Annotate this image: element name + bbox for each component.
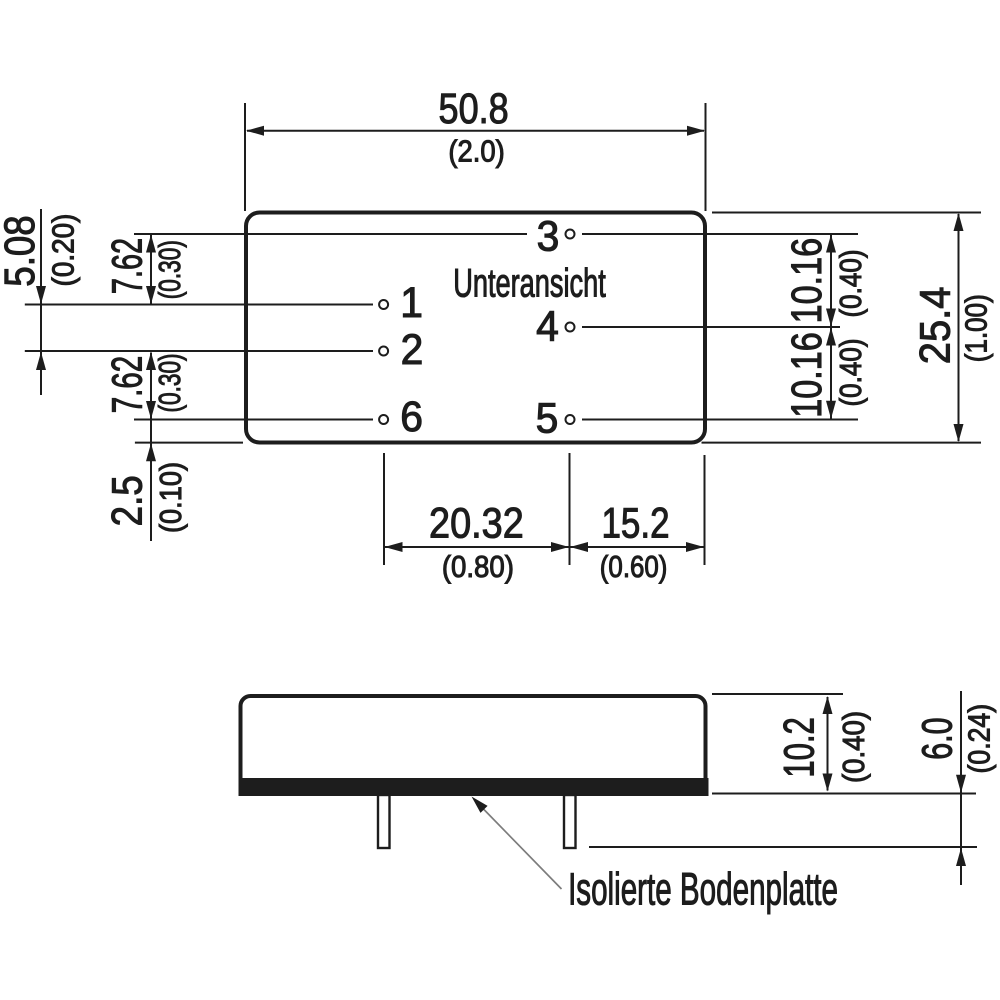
arrowhead 25.4 top xyxy=(954,213,964,231)
svg-text:(0.40): (0.40) xyxy=(837,711,872,783)
arrowhead 5.08 down xyxy=(36,286,46,304)
svg-text:Unteransicht: Unteransicht xyxy=(453,261,606,305)
svg-text:(0.60): (0.60) xyxy=(600,550,668,585)
arrowhead 6.0 up xyxy=(956,848,966,866)
pin 3 pad xyxy=(566,230,575,239)
arrowhead 10.16 lower bottom xyxy=(826,401,836,419)
dimension line 50.8 xyxy=(247,130,704,132)
svg-text:(0.20): (0.20) xyxy=(46,214,81,287)
svg-text:10.16: 10.16 xyxy=(783,238,831,324)
pin 1 pad xyxy=(379,300,388,309)
svg-text:1: 1 xyxy=(400,278,423,326)
arrowhead 7.62 lower top xyxy=(146,352,156,370)
arrowhead 25.4 bottom xyxy=(954,424,964,442)
arrowhead 10.2 bottom xyxy=(823,774,833,792)
arrowhead 20.32 right xyxy=(551,542,569,552)
extension line pin6 column xyxy=(383,453,385,565)
arrowhead 20.32 left xyxy=(385,542,403,552)
arrowhead leader xyxy=(472,797,488,813)
wire pin4 row xyxy=(582,326,840,328)
side view top extension xyxy=(712,693,843,695)
svg-text:10.16: 10.16 xyxy=(783,332,831,418)
pin 5 pad xyxy=(566,415,575,424)
arrowhead 50.8 right xyxy=(687,126,705,136)
pin 6 pad xyxy=(379,415,388,424)
svg-text:(0.30): (0.30) xyxy=(151,240,186,299)
svg-text:20.32: 20.32 xyxy=(429,498,524,547)
arrowhead 7.62 upper top xyxy=(146,235,156,253)
arrowhead 50.8 left xyxy=(246,126,264,136)
svg-text:7.62: 7.62 xyxy=(103,356,151,413)
arrowhead 15.2 left xyxy=(570,542,588,552)
svg-text:2: 2 xyxy=(401,325,424,373)
extension line left for 50.8 xyxy=(244,103,246,211)
svg-text:5: 5 xyxy=(536,394,559,442)
svg-text:4: 4 xyxy=(536,302,559,350)
extension line pin5 column xyxy=(569,453,571,565)
arrowhead 7.62 lower bottom xyxy=(146,401,156,419)
pin 2 pad xyxy=(379,347,388,356)
svg-text:(1.00): (1.00) xyxy=(959,294,994,362)
arrowhead 10.16 upper bottom xyxy=(826,309,836,327)
wire pin2 row xyxy=(25,350,373,352)
svg-text:5.08: 5.08 xyxy=(0,215,44,286)
leader line Isolierte Bodenplatte xyxy=(481,807,562,890)
svg-text:15.2: 15.2 xyxy=(601,500,669,547)
svg-text:(2.0): (2.0) xyxy=(448,135,504,169)
svg-text:10.2: 10.2 xyxy=(775,717,823,778)
extension line right for 50.8 xyxy=(705,103,707,211)
svg-text:(0.10): (0.10) xyxy=(154,462,188,533)
extension bottom edge right xyxy=(702,442,982,444)
dimension 2.5 tail xyxy=(150,420,152,541)
arrowhead 10.16 upper top xyxy=(826,235,836,253)
svg-text:Isolierte Bodenplatte: Isolierte Bodenplatte xyxy=(568,866,838,916)
arrowhead 15.2 right xyxy=(686,542,704,552)
arrowhead 10.16 lower top xyxy=(826,328,836,346)
dimension line 6.0 xyxy=(960,691,962,885)
arrowhead 2.5 up xyxy=(146,443,156,461)
wire pin1 row xyxy=(25,304,373,306)
wire pin3 row left segment xyxy=(134,233,527,235)
svg-text:7.62: 7.62 xyxy=(103,238,151,294)
dimension line 10.16 upper xyxy=(830,235,832,326)
top view body outline xyxy=(246,213,705,443)
wire pin6 row xyxy=(134,419,373,421)
side view pin left xyxy=(378,795,390,848)
svg-text:(0.40): (0.40) xyxy=(834,339,869,407)
svg-text:2.5: 2.5 xyxy=(104,475,151,526)
side view pin bottom extension xyxy=(589,846,977,848)
svg-text:3: 3 xyxy=(537,212,560,260)
extension bottom edge left xyxy=(135,442,243,444)
svg-text:(0.24): (0.24) xyxy=(963,704,997,774)
dimension line 7.62 upper xyxy=(150,235,152,304)
dimension line 20.32 and 15.2 xyxy=(384,546,705,548)
pin 4 pad xyxy=(566,323,575,332)
side view body outline xyxy=(241,696,706,794)
extension line right edge column xyxy=(704,455,706,565)
dimension line 10.16 lower xyxy=(830,328,832,419)
side view pin right xyxy=(564,795,576,848)
side view plate bottom extension xyxy=(712,793,976,795)
arrowhead 7.62 upper bottom xyxy=(146,286,156,304)
side view insulated base plate xyxy=(239,778,709,796)
svg-text:25.4: 25.4 xyxy=(910,287,959,365)
svg-text:(0.40): (0.40) xyxy=(834,250,869,318)
svg-text:6.0: 6.0 xyxy=(912,717,960,759)
svg-text:6: 6 xyxy=(400,392,423,440)
dimension line 10.2 xyxy=(827,697,829,791)
arrowhead 5.08 up xyxy=(36,352,46,370)
wire pin5 row xyxy=(582,419,858,421)
svg-text:50.8: 50.8 xyxy=(439,85,509,133)
extension top edge right xyxy=(712,212,981,214)
arrowhead 6.0 down xyxy=(956,775,966,793)
svg-text:(0.30): (0.30) xyxy=(151,353,186,412)
dimension line 7.62 lower xyxy=(150,353,152,419)
svg-text:(0.80): (0.80) xyxy=(442,549,514,584)
dimension line 25.4 xyxy=(958,214,960,441)
wire pin3 row right segment xyxy=(582,233,858,235)
dimension 5.08 upper tail xyxy=(40,209,42,395)
arrowhead 10.2 top xyxy=(823,696,833,714)
